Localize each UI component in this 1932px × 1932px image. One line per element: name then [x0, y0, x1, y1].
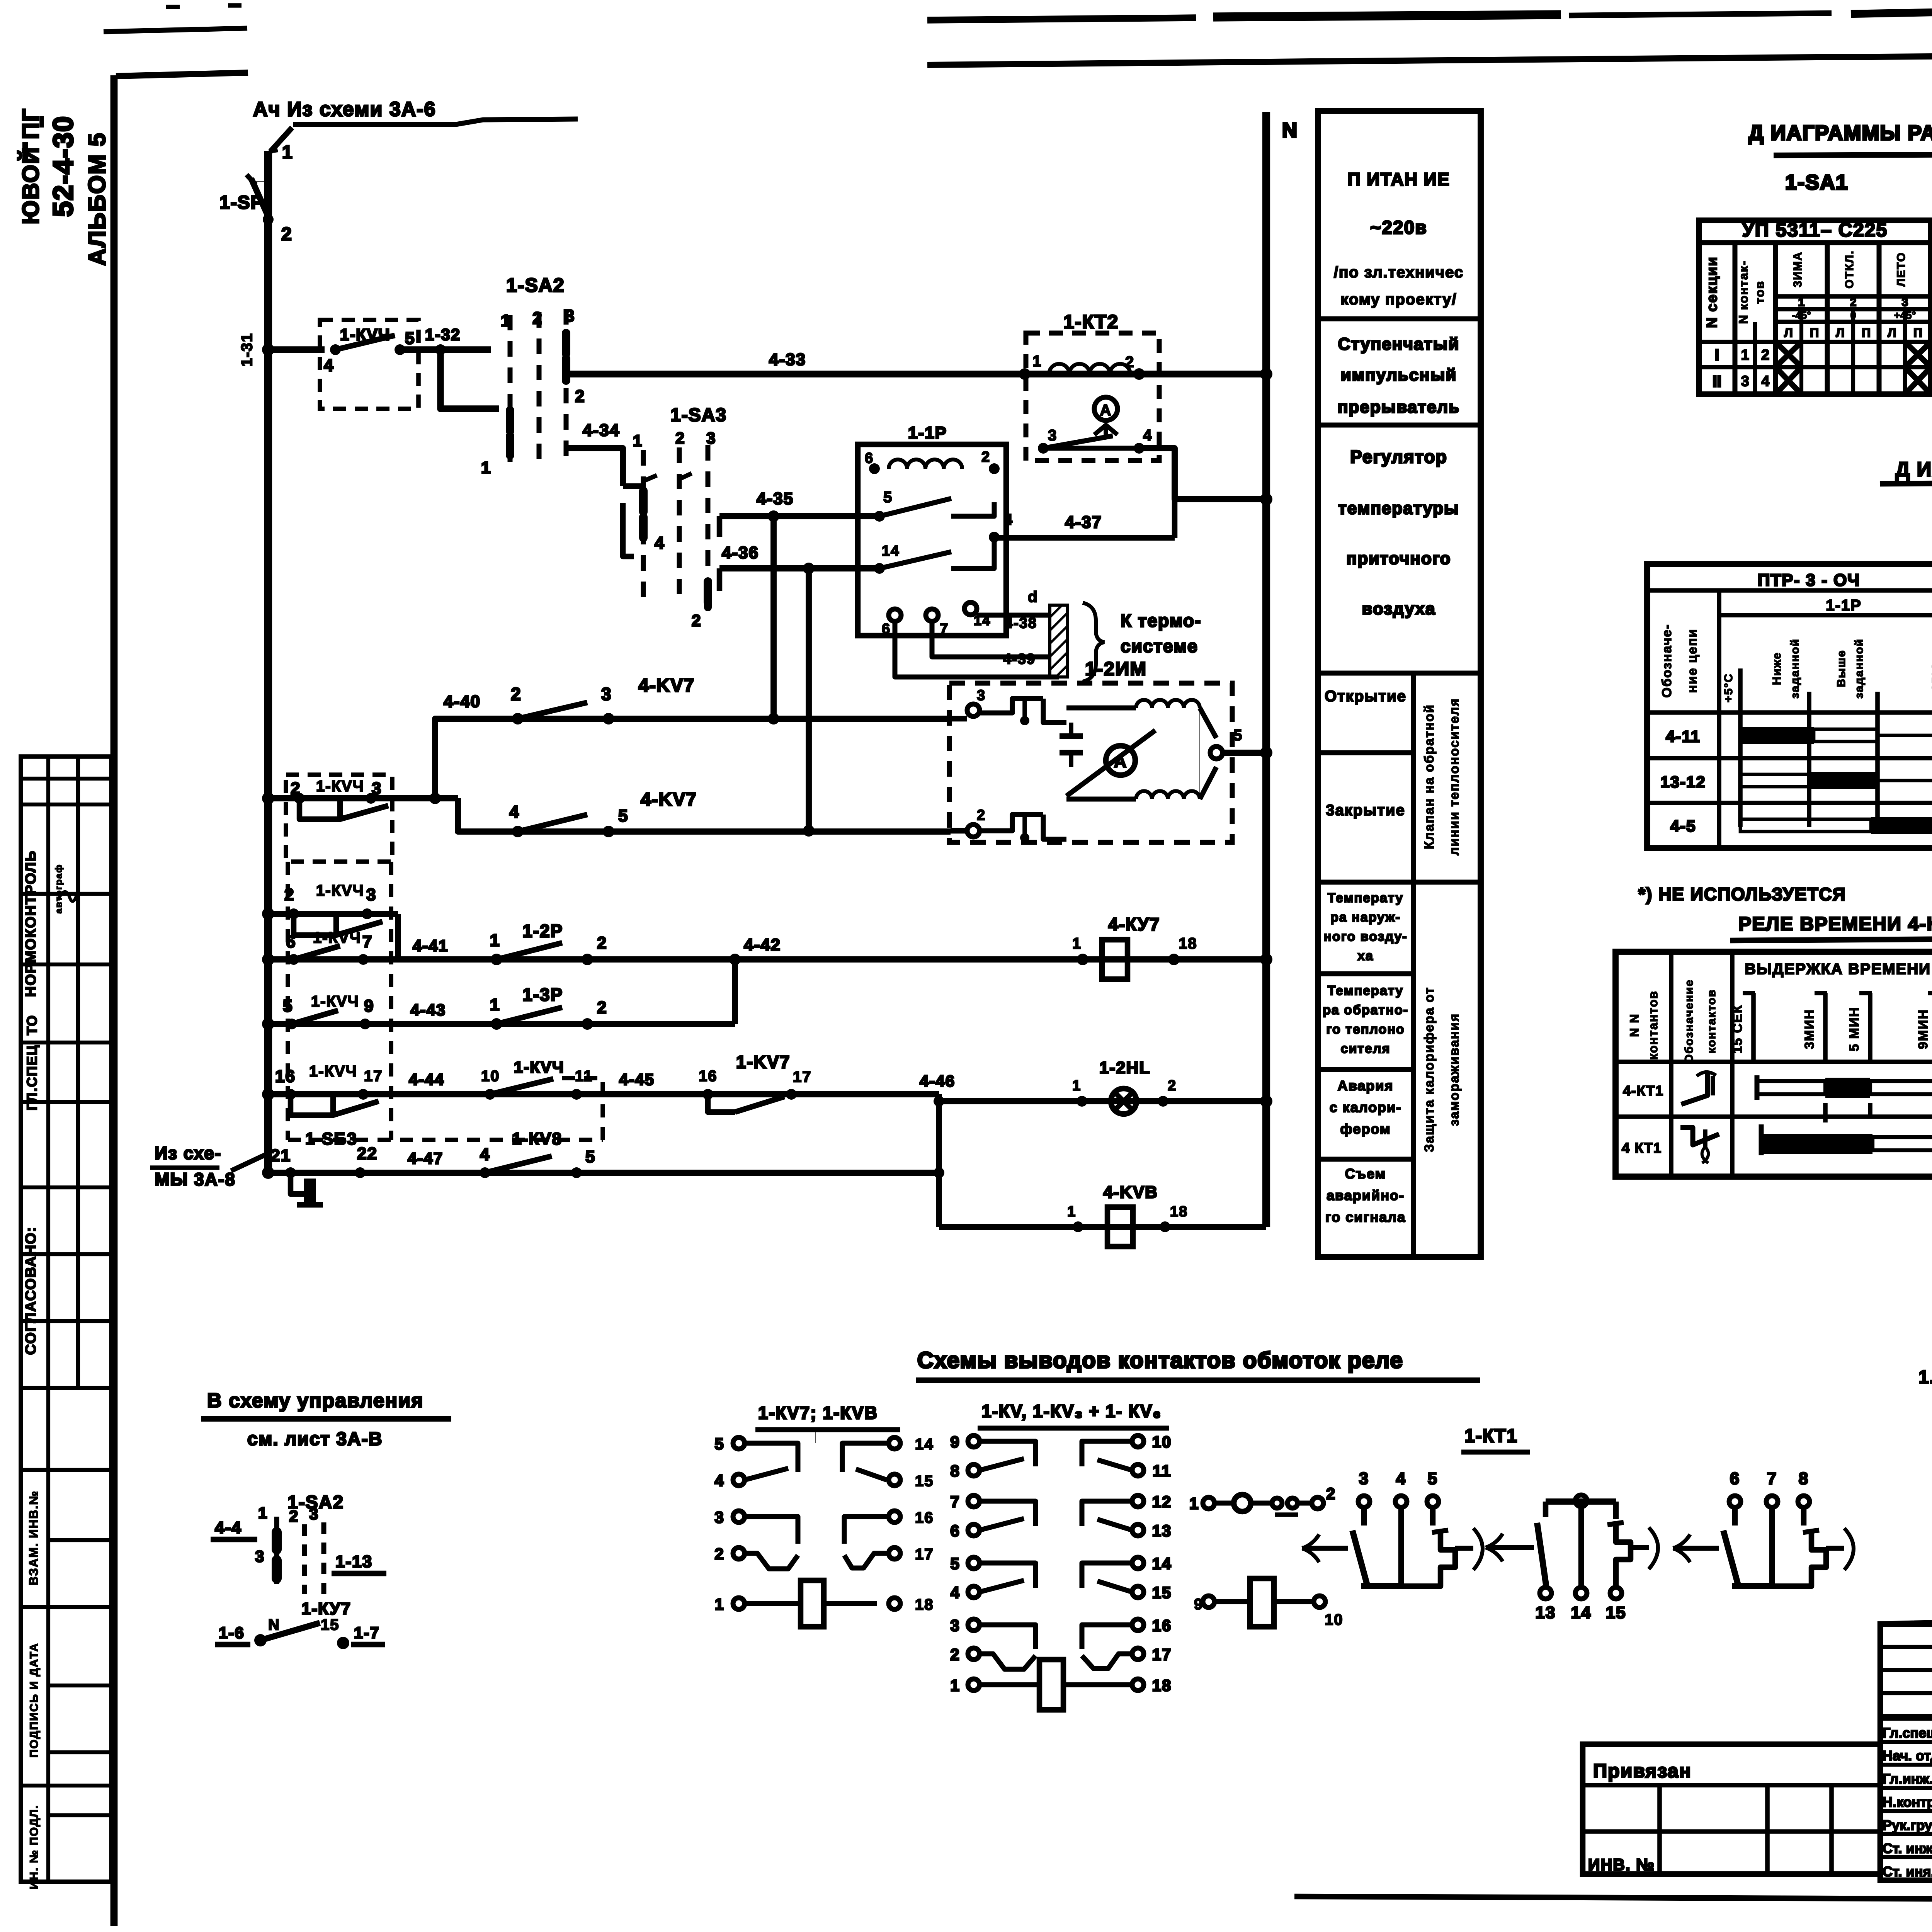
- svg-text:13: 13: [1152, 1522, 1172, 1540]
- svg-text:3: 3: [1902, 296, 1908, 309]
- svg-text:1-SF: 1-SF: [219, 192, 263, 213]
- svg-text:N: N: [268, 1616, 280, 1633]
- svg-text:Ст. иня.: Ст. иня.: [1883, 1864, 1932, 1879]
- svg-text:линии теплоносителя: линии теплоносителя: [1447, 698, 1462, 855]
- svg-text:N: N: [1282, 119, 1298, 142]
- brace to thermo system: [1083, 603, 1104, 682]
- top border line A (broken dark): [927, 18, 1196, 20]
- svg-text:1: 1: [950, 1676, 960, 1694]
- svg-text:11: 11: [1153, 1462, 1171, 1480]
- svg-text:4-KVВ: 4-KVВ: [1103, 1183, 1158, 1202]
- central legend table frame: [1318, 111, 1481, 1257]
- P1 right half: [842, 1443, 889, 1472]
- P2 contact linkage left: [980, 1441, 1036, 1466]
- svg-text:ИН. № ПОДЛ.: ИН. № ПОДЛ.: [28, 1805, 41, 1889]
- svg-text:3: 3: [706, 429, 716, 447]
- svg-text:3ИМА: 3ИМА: [1791, 252, 1804, 287]
- svg-text:Л: Л: [1836, 326, 1844, 340]
- svg-text:15: 15: [915, 1473, 934, 1490]
- svg-text:ИНВ. №: ИНВ. №: [1588, 1855, 1655, 1874]
- wire 4-33 long horizontal: [566, 371, 1028, 377]
- svg-text:I: I: [1715, 346, 1719, 364]
- rung 4-44 / 4-45: [262, 1088, 274, 1100]
- P2 right linkage: [1082, 1441, 1132, 1466]
- svg-text:4-КT1: 4-КT1: [1623, 1083, 1664, 1099]
- svg-text:2: 2: [597, 934, 607, 952]
- svg-text:1-31: 1-31: [238, 333, 255, 367]
- svg-text:1-13: 1-13: [335, 1552, 372, 1571]
- svg-text:1-КV7; 1-КVВ: 1-КV7; 1-КVВ: [758, 1403, 878, 1423]
- svg-text:1-1Р: 1-1Р: [908, 423, 947, 442]
- 1-1R bottom terminals 6 7 14: [889, 609, 901, 621]
- svg-text:1: 1: [1032, 353, 1042, 370]
- svg-text:6: 6: [865, 450, 874, 466]
- svg-text:4: 4: [1761, 373, 1769, 389]
- svg-text:1: 1: [1189, 1494, 1199, 1512]
- svg-text:4 КT1: 4 КT1: [1622, 1140, 1662, 1156]
- left stamp sidebar table: [21, 757, 111, 1882]
- svg-text:A: A: [1100, 402, 1112, 419]
- svg-text:Л: Л: [1784, 326, 1793, 340]
- svg-text:Ступенчатый: Ступенчатый: [1338, 335, 1460, 354]
- svg-text:2: 2: [284, 885, 294, 904]
- svg-text:9: 9: [364, 997, 374, 1015]
- svg-text:4-11: 4-11: [1666, 727, 1701, 745]
- svg-text:1-SА1: 1-SА1: [1785, 171, 1848, 194]
- svg-text:Привязан: Привязан: [1593, 1760, 1692, 1782]
- svg-text:4-44: 4-44: [409, 1070, 444, 1088]
- svg-text:16: 16: [1152, 1616, 1172, 1634]
- svg-text:2: 2: [950, 1645, 960, 1663]
- rung 4-40 with contact 4-KV7 (2-3): [435, 719, 951, 798]
- svg-text:Обозначение: Обозначение: [1683, 979, 1696, 1063]
- svg-text:3: 3: [366, 885, 376, 904]
- svg-text:22: 22: [357, 1144, 378, 1163]
- svg-text:6: 6: [882, 621, 891, 637]
- svg-text:1-2HL: 1-2HL: [1099, 1058, 1150, 1077]
- svg-text:1-КT2: 1-КT2: [1063, 311, 1119, 333]
- svg-text:N контак-: N контак-: [1736, 260, 1750, 324]
- top-left corner marks: [166, 5, 180, 9]
- svg-text:4: 4: [1396, 1469, 1406, 1488]
- svg-text:4-34: 4-34: [583, 421, 620, 440]
- svg-text:Схемы выводов контактов обм: Схемы выводов контактов обмоток реле: [917, 1348, 1403, 1373]
- svg-text:Ач Из схеми 3А-6: Ач Из схеми 3А-6: [253, 98, 436, 121]
- svg-text:4-37: 4-37: [1065, 513, 1102, 532]
- svg-text:1-6: 1-6: [219, 1624, 245, 1642]
- svg-text:13: 13: [1536, 1603, 1556, 1622]
- rung 1-KVCh (2-3) upper: [262, 908, 274, 920]
- svg-text:7: 7: [1767, 1469, 1777, 1488]
- arrow into bus: [270, 128, 292, 151]
- svg-text:+5°С: +5°С: [1722, 673, 1735, 702]
- svg-text:Температу: Температу: [1328, 983, 1403, 998]
- svg-text:см. лист 3А-В: см. лист 3А-В: [247, 1429, 383, 1449]
- svg-text:10: 10: [481, 1068, 500, 1085]
- svg-text:1. Схему управления и пер: 1. Схему управления и перечень аппаратур…: [1918, 1367, 1932, 1388]
- svg-text:Выше: Выше: [1835, 650, 1848, 687]
- sheet frame left border: [111, 75, 118, 1926]
- svg-text:1-КVЧ: 1-КVЧ: [316, 778, 364, 795]
- svg-text:В схему управления: В схему управления: [207, 1389, 424, 1412]
- svg-text:аварийно-: аварийно-: [1327, 1187, 1405, 1203]
- svg-text:2: 2: [692, 611, 701, 629]
- neutral bus N: [1262, 112, 1270, 1227]
- svg-text:2: 2: [1761, 347, 1769, 363]
- svg-text:АЛЬБОМ 5: АЛЬБОМ 5: [84, 132, 111, 266]
- svg-text:14: 14: [882, 543, 900, 559]
- bottom frame line: [1294, 1896, 1932, 1902]
- svg-text:СОГЛАСОВАНО:: СОГЛАСОВАНО:: [23, 1226, 39, 1355]
- wire from KT2 contact to 4-37: [1139, 448, 1266, 499]
- svg-text:МЫ 3А-8: МЫ 3А-8: [155, 1169, 236, 1189]
- svg-text:Авария: Авария: [1338, 1078, 1394, 1094]
- svg-text:4-4: 4-4: [215, 1518, 242, 1537]
- svg-text:1-КV, 1-КV₃ ÷ 1- КV₆: 1-КV, 1-КV₃ ÷ 1- КV₆: [981, 1401, 1162, 1421]
- svg-text:2: 2: [575, 387, 585, 406]
- svg-text:1: 1: [282, 142, 293, 163]
- wire 1-32: [400, 346, 491, 353]
- svg-text:ПОДПИСЬ И ДАТА: ПОДПИСЬ И ДАТА: [28, 1643, 41, 1758]
- svg-text:15: 15: [1606, 1603, 1626, 1622]
- rung via 1-KVCh (2-3) to 4-KV7 (4-5): [262, 792, 274, 804]
- svg-text:ха: ха: [1357, 949, 1374, 963]
- svg-text:1-1Р: 1-1Р: [1826, 597, 1862, 614]
- svg-text:15 СЕК: 15 СЕК: [1730, 1004, 1745, 1053]
- svg-text:4-КУ7: 4-КУ7: [1108, 914, 1160, 934]
- svg-text:3: 3: [1048, 427, 1057, 444]
- svg-text:1: 1: [481, 458, 491, 477]
- svg-text:УП 5311– С225: УП 5311– С225: [1742, 219, 1888, 241]
- svg-text:12: 12: [1152, 1493, 1172, 1511]
- svg-text:1: 1: [1741, 347, 1749, 363]
- svg-text:14: 14: [1152, 1554, 1172, 1573]
- svg-text:Съем: Съем: [1345, 1166, 1386, 1182]
- svg-text:Ст. инж.: Ст. инж.: [1883, 1840, 1932, 1856]
- P2 coil: [980, 1682, 1039, 1687]
- svg-text:1-КVЧ: 1-КVЧ: [309, 1063, 357, 1080]
- svg-text:ние цепи: ние цепи: [1685, 628, 1700, 693]
- svg-text:1: 1: [1067, 1204, 1076, 1220]
- svg-text:13-12: 13-12: [1660, 773, 1706, 791]
- svg-text:4-33: 4-33: [769, 350, 806, 369]
- svg-text:18: 18: [1170, 1204, 1188, 1220]
- svg-text:1-7: 1-7: [354, 1624, 380, 1642]
- motor circle: [1106, 746, 1135, 775]
- svg-text:Регулятор: Регулятор: [1350, 447, 1447, 467]
- svg-text:7: 7: [940, 621, 949, 637]
- svg-text:15: 15: [1152, 1583, 1172, 1602]
- svg-text:4-35: 4-35: [757, 489, 794, 508]
- svg-text:Л: Л: [1888, 326, 1896, 340]
- phase bus vertical wire: [264, 151, 272, 1173]
- svg-text:П: П: [1913, 326, 1922, 340]
- svg-text:5: 5: [883, 489, 893, 506]
- svg-text:контактов: контактов: [1705, 989, 1718, 1054]
- svg-text:контантов: контантов: [1646, 990, 1660, 1060]
- svg-text:импульсный: импульсный: [1341, 366, 1457, 384]
- table PTR-3-04 (regulator 1-1R diagram): [1647, 564, 1932, 848]
- svg-text:НОРМОКОНТРОЛЬ: НОРМОКОНТРОЛЬ: [23, 850, 39, 997]
- svg-text:2: 2: [281, 224, 293, 245]
- relay contact 1-KVCh (4-5) in dashed box: [320, 320, 418, 409]
- svg-text:18: 18: [1179, 935, 1197, 952]
- svg-text:+35°С: +35°С: [1930, 662, 1932, 699]
- svg-text:9: 9: [950, 1433, 960, 1451]
- svg-text:1-КVЧ: 1-КVЧ: [514, 1058, 565, 1076]
- regulator 1-1R box: [858, 444, 1006, 636]
- svg-text:К термо-: К термо-: [1121, 611, 1201, 631]
- svg-text:го теплоно: го теплоно: [1326, 1022, 1405, 1037]
- svg-text:1-КVЧ: 1-КVЧ: [311, 993, 359, 1010]
- svg-text:кому проекту/: кому проекту/: [1340, 291, 1457, 308]
- svg-text:52-4-30: 52-4-30: [48, 116, 79, 217]
- svg-text:10: 10: [1152, 1433, 1172, 1451]
- table 4-KT1 time delays: [1616, 952, 1932, 1177]
- svg-text:16: 16: [699, 1068, 718, 1085]
- svg-text:П ИТАН ИЕ: П ИТАН ИЕ: [1347, 169, 1450, 189]
- svg-text:6: 6: [950, 1522, 960, 1540]
- actuator coils: [1136, 700, 1200, 708]
- svg-text:21: 21: [270, 1146, 291, 1165]
- svg-text:4: 4: [714, 1471, 724, 1490]
- svg-text:5: 5: [585, 1147, 595, 1166]
- svg-text:16: 16: [275, 1067, 296, 1086]
- breaker 1-SF: [252, 181, 268, 182]
- svg-text:17: 17: [793, 1068, 812, 1085]
- svg-text:1-2Р: 1-2Р: [522, 921, 563, 941]
- svg-text:го сигнала: го сигнала: [1325, 1209, 1406, 1225]
- svg-text:II: II: [1713, 372, 1721, 390]
- svg-text:3: 3: [309, 1505, 319, 1523]
- junction verticals to lower rungs: [770, 516, 777, 719]
- svg-text:5: 5: [950, 1554, 960, 1573]
- svg-text:4-5: 4-5: [1670, 817, 1696, 835]
- svg-text:2: 2: [1850, 296, 1857, 309]
- svg-text:5: 5: [618, 806, 628, 825]
- rung 4-41 / 4-2R: [262, 953, 274, 966]
- svg-text:~220в: ~220в: [1370, 218, 1427, 238]
- svg-text:8: 8: [950, 1462, 960, 1480]
- svg-text:ГЛ.СПЕЦ. ТО: ГЛ.СПЕЦ. ТО: [24, 1015, 40, 1111]
- svg-text:17: 17: [915, 1546, 934, 1563]
- svg-text:4-43: 4-43: [410, 1001, 446, 1019]
- svg-text:15: 15: [321, 1616, 340, 1633]
- title block: signatures table: [1880, 1624, 1932, 1880]
- svg-text:4-42: 4-42: [744, 935, 781, 954]
- svg-text:2: 2: [1125, 354, 1134, 371]
- svg-text:4: 4: [950, 1583, 960, 1602]
- svg-text:5: 5: [1233, 727, 1243, 744]
- svg-text:ра обратно-: ра обратно-: [1323, 1003, 1408, 1017]
- svg-text:1-КV8: 1-КV8: [512, 1129, 562, 1148]
- svg-text:11: 11: [575, 1068, 593, 1085]
- svg-text:18: 18: [1152, 1676, 1172, 1694]
- svg-text:1-КVЧ: 1-КVЧ: [313, 929, 361, 946]
- svg-text:1-32: 1-32: [425, 325, 461, 344]
- svg-text:4-36: 4-36: [722, 543, 759, 562]
- svg-text:6: 6: [286, 932, 296, 951]
- svg-text:4: 4: [480, 1145, 490, 1164]
- svg-text:Открытие: Открытие: [1325, 688, 1406, 705]
- svg-text:2: 2: [597, 998, 607, 1017]
- svg-text:17: 17: [1152, 1645, 1172, 1663]
- svg-text:3МИН: 3МИН: [1802, 1009, 1817, 1049]
- svg-text:1-2ИМ: 1-2ИМ: [1085, 658, 1147, 680]
- svg-text:заданной: заданной: [1789, 638, 1801, 699]
- svg-text:1: 1: [1798, 296, 1805, 309]
- svg-text:с калори-: с калори-: [1330, 1099, 1402, 1115]
- svg-text:3: 3: [714, 1508, 724, 1526]
- svg-text:18: 18: [915, 1596, 934, 1613]
- svg-text:3: 3: [1741, 373, 1749, 389]
- coil 1-1R: [869, 463, 880, 474]
- svg-text:9МИН: 9МИН: [1916, 1009, 1930, 1049]
- svg-text:5 МИН: 5 МИН: [1847, 1007, 1862, 1051]
- svg-text:5: 5: [283, 997, 293, 1015]
- svg-text:Из схе-: Из схе-: [155, 1143, 221, 1163]
- svg-text:1: 1: [490, 931, 500, 950]
- svg-text:2: 2: [981, 449, 990, 465]
- svg-text:2: 2: [289, 1507, 299, 1525]
- svg-text:системе: системе: [1121, 636, 1198, 656]
- svg-text:3: 3: [950, 1616, 960, 1634]
- 1-1R contact 14: [874, 563, 885, 574]
- svg-text:4: 4: [655, 534, 665, 553]
- svg-text:1: 1: [1072, 1078, 1081, 1094]
- svg-text:Д ИАГРАММЫ РАБОТЫ КОНТАКТО: Д ИАГРАММЫ РАБОТЫ КОНТАКТОВ ЧНИВЕРСАЛЬНЫ…: [1748, 121, 1932, 145]
- svg-text:РЕЛЕ ВРЕМЕНИ 4-КT1: РЕЛЕ ВРЕМЕНИ 4-КT1: [1738, 913, 1932, 935]
- svg-text:Гл.инж.пр.: Гл.инж.пр.: [1883, 1771, 1932, 1787]
- svg-text:7: 7: [950, 1493, 960, 1511]
- svg-text:1-КT1: 1-КT1: [1464, 1426, 1518, 1446]
- rung 4-43 / 4-3R: [262, 1018, 274, 1030]
- svg-text:Защита калорифера от: Защита калорифера от: [1422, 987, 1437, 1152]
- svg-text:замораживания: замораживания: [1447, 1013, 1462, 1126]
- svg-text:16: 16: [915, 1509, 934, 1526]
- svg-text:8: 8: [1799, 1469, 1809, 1488]
- svg-text:4: 4: [324, 356, 334, 375]
- svg-text:1-КУ7: 1-КУ7: [301, 1599, 351, 1618]
- svg-text:температуры: температуры: [1338, 499, 1459, 518]
- svg-text:4-40: 4-40: [444, 692, 481, 711]
- svg-text:4-KV7: 4-KV7: [641, 789, 697, 810]
- svg-text:4: 4: [1143, 427, 1152, 444]
- svg-text:1-КVЧ: 1-КVЧ: [316, 882, 364, 899]
- svg-text:Рук.группы: Рук.группы: [1883, 1817, 1932, 1833]
- svg-text:4-KV7: 4-KV7: [638, 675, 695, 696]
- svg-text:10: 10: [1325, 1611, 1344, 1628]
- svg-text:5: 5: [405, 329, 415, 348]
- svg-text:4-47: 4-47: [408, 1149, 443, 1167]
- capacitor in 1-2IM: [1060, 733, 1083, 739]
- svg-text:воздуха: воздуха: [1362, 599, 1435, 618]
- svg-text:2: 2: [1168, 1078, 1177, 1094]
- svg-text:ПТР- 3 - ОЧ: ПТР- 3 - ОЧ: [1758, 571, 1860, 590]
- svg-text:1: 1: [1072, 935, 1082, 952]
- 1-1R contact 5: [874, 511, 885, 522]
- svg-text:6: 6: [1730, 1469, 1740, 1488]
- svg-text:ВЗАМ. ИНВ.№: ВЗАМ. ИНВ.№: [27, 1490, 41, 1585]
- svg-text:Температу: Температу: [1328, 891, 1403, 905]
- svg-text:*) НЕ ИСПОЛЬЗУЕТСЯ: *) НЕ ИСПОЛЬЗУЕТСЯ: [1638, 884, 1846, 904]
- svg-text:5: 5: [1428, 1469, 1438, 1488]
- svg-text:приточного: приточного: [1347, 549, 1451, 568]
- svg-text:1: 1: [714, 1595, 724, 1613]
- svg-text:П: П: [1810, 326, 1819, 340]
- svg-text:1-3Р: 1-3Р: [522, 985, 563, 1005]
- svg-text:Ниже: Ниже: [1770, 652, 1783, 685]
- svg-text:2: 2: [675, 429, 685, 447]
- svg-text:4-41: 4-41: [413, 937, 448, 955]
- svg-text:14: 14: [915, 1436, 934, 1453]
- svg-text:1: 1: [258, 1504, 268, 1522]
- svg-text:2: 2: [1326, 1485, 1336, 1503]
- svg-text:Клапан на обратной: Клапан на обратной: [1422, 704, 1437, 849]
- svg-text:1-SА3: 1-SА3: [670, 405, 727, 425]
- svg-text:1-SБ3: 1-SБ3: [305, 1129, 357, 1148]
- svg-text:14: 14: [1571, 1603, 1592, 1622]
- svg-text:П: П: [1862, 326, 1871, 340]
- svg-text:ОТКЛ.: ОТКЛ.: [1843, 250, 1856, 288]
- svg-text:2: 2: [977, 807, 986, 823]
- svg-text:3: 3: [977, 687, 986, 704]
- title block: privyazan box: [1583, 1744, 1880, 1874]
- svg-text:Гл.спец.Ю: Гл.спец.Ю: [1883, 1725, 1932, 1741]
- svg-text:3: 3: [255, 1547, 265, 1565]
- svg-text:Д ИАГРАММЫ РАБОТЫ КОНТ: Д ИАГРАММЫ РАБОТЫ КОНТАКТОВ: [1895, 458, 1932, 481]
- svg-text:заданной: заданной: [1853, 638, 1866, 699]
- svg-text:5: 5: [714, 1435, 724, 1453]
- leader wire from 3A-6: [293, 119, 578, 124]
- KT1 contact group B (13,14,15): [1546, 1498, 1616, 1505]
- svg-text:автограф: автограф: [54, 864, 64, 914]
- title block: top slanted edge: [1880, 1607, 1932, 1624]
- svg-text:d: d: [1028, 588, 1038, 605]
- svg-text:3акрытие: 3акрытие: [1326, 802, 1405, 819]
- svg-text:3: 3: [1359, 1469, 1369, 1488]
- dashed enclosure for 1-KVCh contact group: [286, 862, 290, 1140]
- svg-text:тов: тов: [1753, 281, 1767, 304]
- P1 contact pair rows (left): [745, 1443, 798, 1472]
- svg-text:сителя: сителя: [1341, 1041, 1391, 1056]
- svg-text:7: 7: [362, 932, 372, 951]
- svg-text:ЛЕТО: ЛЕТО: [1895, 252, 1908, 287]
- svg-text:1: 1: [633, 432, 643, 450]
- svg-text:Н.контроль: Н.контроль: [1883, 1794, 1932, 1810]
- top border line B: [927, 50, 1932, 65]
- svg-text:4-45: 4-45: [619, 1070, 655, 1088]
- svg-text:N секции: N секции: [1704, 256, 1720, 328]
- P1 coil: [745, 1601, 801, 1606]
- svg-text:фером: фером: [1340, 1121, 1391, 1137]
- svg-text:4: 4: [509, 803, 519, 821]
- svg-text:/по зл.техничес: /по зл.техничес: [1334, 264, 1464, 281]
- svg-text:ра наруж-: ра наруж-: [1330, 910, 1401, 925]
- svg-text:Обозначе-: Обозначе-: [1660, 624, 1674, 697]
- svg-text:Нач. отд.: Нач. отд.: [1883, 1748, 1932, 1764]
- svg-text:1-SА2: 1-SА2: [506, 274, 565, 296]
- svg-text:1: 1: [490, 995, 500, 1014]
- rung 21 / 1-SB3 / 4-47 / 1-KV8: [262, 1167, 274, 1179]
- svg-text:ного возду-: ного возду-: [1323, 929, 1407, 944]
- svg-text:ВЫДЕРЖКА ВРЕМЕНИ: ВЫДЕРЖКА ВРЕМЕНИ: [1745, 961, 1931, 978]
- svg-text:4: 4: [1004, 511, 1013, 528]
- svg-text:1-KV7: 1-KV7: [736, 1052, 790, 1072]
- svg-text:2: 2: [714, 1545, 724, 1563]
- svg-text:прерыватель: прерыватель: [1338, 398, 1460, 417]
- svg-text:17: 17: [364, 1068, 383, 1085]
